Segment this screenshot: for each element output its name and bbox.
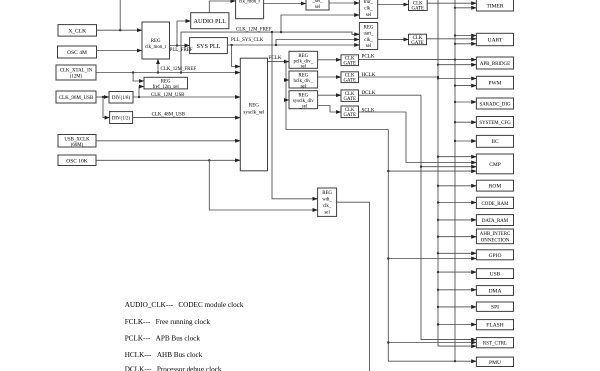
- clock gate DCLK: [341, 90, 359, 102]
- monitor box clk_mon (top, cut off): [236, 0, 264, 19]
- wire PLL_SYS_CLK branch to sysclk_sel input 1: [232, 45, 241, 67]
- peripheral CMP: [476, 154, 513, 174]
- wire CMP input 4 from x=388 bus: [387, 170, 476, 172]
- svg-text:REG: REG: [249, 103, 260, 109]
- register REG clk_mon_r: [142, 22, 170, 59]
- svg-text:clk_mon_r: clk_mon_r: [145, 45, 167, 50]
- wire SARADC_DIG stub: [454, 101, 477, 103]
- svg-text:PCLK: PCLK: [362, 54, 375, 60]
- svg-text:GATE: GATE: [411, 41, 424, 46]
- svg-text:CODE_RAM: CODE_RAM: [482, 202, 510, 207]
- wire clk_mon top box to sel box: [264, 3, 306, 5]
- wire FCLK branch down: [285, 62, 389, 130]
- svg-text:SYSTEM_CFG: SYSTEM_CFG: [479, 121, 511, 126]
- peripheral SARADC_DIG: [476, 98, 513, 109]
- wire wdt_clk_sel out down off bottom: [337, 202, 370, 371]
- svg-text:(12M): (12M): [70, 75, 83, 80]
- clock gate SCLK: [341, 106, 359, 118]
- svg-text:GATE: GATE: [412, 7, 425, 12]
- wire pclk_div_sel to PCLK gate: [318, 59, 341, 61]
- wire TIMER input 2 stub: [454, 7, 477, 9]
- wire DMA stub: [437, 289, 477, 291]
- peripheral APB_BRIDGE: [476, 57, 513, 69]
- wire FCLK to hclk_div_sel: [286, 79, 289, 81]
- peripheral PWM: [476, 76, 513, 89]
- input box OSC 4M: [58, 46, 97, 58]
- svg-text:clk_: clk_: [323, 204, 332, 209]
- register REG hclk_div_sel: [289, 71, 318, 89]
- wire HCLK gate out to HCLK bus: [359, 76, 440, 78]
- wire sysclk_div_sel to DCLK gate: [318, 94, 341, 96]
- peripheral IIC: [476, 135, 513, 147]
- svg-text:AUDIO PLL: AUDIO PLL: [194, 18, 227, 25]
- pll AUDIO PLL: [191, 13, 229, 29]
- divider DIV(1/2): [110, 112, 133, 124]
- register REG wdt_clk_sel: [318, 188, 337, 216]
- wire CMP input 1 stub: [437, 156, 477, 158]
- peripheral RST_CTRL: [476, 338, 513, 348]
- peripheral PMU: [476, 357, 513, 366]
- svg-text:FCLK--- Free running clock: FCLK--- Free running clock: [125, 318, 211, 326]
- svg-text:GATE: GATE: [343, 113, 356, 118]
- svg-text:tmr_: tmr_: [364, 0, 374, 5]
- svg-text:clk_: clk_: [364, 38, 373, 43]
- svg-text:PCLK--- APB Bus clock: PCLK--- APB Bus clock: [125, 335, 201, 343]
- peripheral DATA_RAM: [476, 215, 513, 226]
- svg-text:_sel_: _sel_: [311, 0, 323, 4]
- svg-text:REG: REG: [298, 74, 308, 79]
- wire OSC4M to clk_mon: [96, 50, 142, 52]
- wire OSC 10K branch to wdt_clk_sel input 2: [209, 160, 317, 210]
- svg-text:PWM: PWM: [488, 81, 501, 87]
- register sel box (top, cut off): [306, 0, 329, 10]
- register REG sysclk_sel: [240, 58, 267, 171]
- wire APB_BRIDGE input 2 stub: [437, 63, 477, 65]
- svg-text:PLL_FREF: PLL_FREF: [170, 48, 193, 53]
- svg-text:USB_XCLK: USB_XCLK: [64, 137, 90, 142]
- wire SPI stub: [437, 306, 477, 308]
- wire uart reg to clk gate: [378, 38, 409, 40]
- wire PCLK gate out to APB_BRIDGE: [359, 58, 477, 60]
- bus DCLK vertical x=421 to RST_CTRL input 1: [421, 95, 476, 339]
- clock gate for TIMER: [409, 0, 428, 12]
- clock gate PCLK: [341, 55, 359, 67]
- svg-text:AHB_INTERC: AHB_INTERC: [480, 232, 510, 237]
- clock gate for UART: [409, 34, 427, 46]
- wire uart gate out to UART: [427, 38, 477, 40]
- register REG fref_12m_sel: [144, 77, 188, 90]
- wire FLASH stub: [437, 323, 477, 325]
- wire DCLK gate out to DCLK bus: [359, 94, 422, 96]
- svg-text:REG: REG: [298, 93, 308, 98]
- register REG pclk_div_sel: [289, 51, 318, 69]
- svg-text:ONNECTION: ONNECTION: [481, 238, 510, 243]
- svg-text:DIV(1/8): DIV(1/8): [112, 96, 131, 101]
- svg-text:USB: USB: [490, 272, 501, 278]
- wire CLK_12M_FREF branch down to wdt_clk_sel input 1: [272, 32, 318, 199]
- register REG tmr_clk_sel (top, cut off): [359, 0, 377, 18]
- svg-text:AUDIO_CLK--- CODEC module cl: AUDIO_CLK--- CODEC module clock: [125, 301, 244, 309]
- peripheral FLASH: [476, 320, 513, 330]
- svg-text:PLL_SYS_CLK: PLL_SYS_CLK: [231, 38, 264, 43]
- svg-text:sel: sel: [301, 84, 307, 89]
- svg-text:uart_: uart_: [363, 32, 374, 37]
- wire USB_XCLK to sysclk_sel: [96, 140, 240, 142]
- wire branch down to DIV(1/2): [103, 97, 110, 118]
- svg-text:CMP: CMP: [489, 162, 501, 168]
- svg-text:GATE: GATE: [343, 79, 356, 84]
- wire tmr gate out to TIMER: [427, 2, 476, 4]
- pll SYS PLL: [190, 38, 228, 54]
- wire IIC stub: [454, 140, 477, 142]
- register REG uart_clk_sel: [359, 23, 377, 50]
- svg-text:SPI: SPI: [491, 305, 499, 311]
- peripheral AHB_INTERCONNECTION: [476, 229, 513, 244]
- wire GPIO input 1 stub: [437, 252, 477, 254]
- peripheral TIMER: [476, 0, 513, 11]
- svg-text:OSC 10K: OSC 10K: [66, 158, 88, 164]
- svg-text:SYS PLL: SYS PLL: [197, 43, 221, 50]
- svg-text:clk_mon_r: clk_mon_r: [239, 0, 261, 5]
- svg-text:ROM: ROM: [489, 184, 502, 190]
- wire GPIO input 2 from x=388 bus: [387, 257, 476, 259]
- svg-text:APB_BRIDGE: APB_BRIDGE: [480, 62, 510, 67]
- svg-text:PMU: PMU: [489, 360, 501, 366]
- svg-text:X_CLK: X_CLK: [68, 29, 86, 35]
- wire CLK_12M_FREF riser and top run to uart reg pin1: [181, 31, 359, 73]
- svg-text:CLK_96M_USB: CLK_96M_USB: [59, 95, 94, 101]
- wire CLK_96M_USB to DIV(1/8): [96, 96, 109, 98]
- wire CLK_12M_USB to sysclk_sel: [133, 96, 240, 98]
- wire ROM stub: [437, 185, 477, 187]
- wire USB stub: [437, 271, 477, 273]
- peripheral USB: [476, 269, 513, 279]
- input box CLK_XTAL_IN (12M): [56, 65, 96, 80]
- svg-text:CLK_XTAL_IN: CLK_XTAL_IN: [60, 68, 93, 73]
- wire jog to tmr reg pin2: [281, 15, 359, 32]
- svg-text:UART: UART: [488, 38, 503, 44]
- svg-text:GPIO: GPIO: [489, 253, 502, 259]
- peripheral DMA: [476, 286, 513, 296]
- wire FCLK from sysclk_sel to pclk_div_sel: [268, 60, 290, 62]
- bus FCLK branch vertical x=388 down to PMU: [388, 130, 476, 362]
- svg-text:HCLK--- AHB Bus clock: HCLK--- AHB Bus clock: [125, 351, 203, 359]
- svg-text:clk_: clk_: [364, 7, 373, 12]
- svg-text:sel: sel: [324, 211, 330, 216]
- peripheral SYSTEM_CFG: [476, 117, 513, 128]
- svg-text:SCLK: SCLK: [362, 107, 375, 113]
- wire tmr reg to clk gate: [378, 4, 409, 6]
- svg-text:SARADC_DIG: SARADC_DIG: [480, 102, 511, 107]
- wire branch to fref_12m_sel input 2: [139, 87, 144, 98]
- peripheral UART: [476, 33, 513, 45]
- svg-text:TIMER: TIMER: [486, 4, 503, 10]
- wire jog to uart reg pin2: [276, 40, 359, 46]
- svg-text:OSC 4M: OSC 4M: [67, 50, 87, 56]
- wire X_CLK to clk_mon: [96, 0, 142, 31]
- svg-text:sysclk_sel: sysclk_sel: [243, 110, 265, 116]
- wire hclk_div_sel to HCLK gate: [318, 76, 341, 78]
- input box USB_XCLK (60M): [58, 135, 96, 149]
- svg-text:REG: REG: [322, 191, 332, 196]
- svg-text:DCLK--- Processor debug cloc: DCLK--- Processor debug clock: [125, 365, 222, 371]
- svg-text:RST_CTRL: RST_CTRL: [483, 342, 507, 347]
- svg-text:DATA_RAM: DATA_RAM: [482, 219, 509, 224]
- svg-text:sel: sel: [315, 5, 321, 10]
- bus HCLK vertical x=438 to RST_CTRL input 3: [438, 0, 476, 346]
- svg-text:REG: REG: [298, 54, 308, 59]
- svg-text:DCLK: DCLK: [362, 90, 376, 96]
- wire PLL_FREF branch to AUDIO PLL: [177, 21, 191, 46]
- svg-text:_sel: _sel: [298, 104, 308, 109]
- svg-text:HCLK: HCLK: [362, 72, 376, 78]
- svg-text:sysclk_div: sysclk_div: [293, 99, 314, 104]
- svg-text:REG: REG: [161, 79, 171, 84]
- svg-text:sel: sel: [301, 65, 307, 70]
- svg-text:sel: sel: [366, 13, 372, 18]
- wire PWM input 1 stub: [437, 77, 477, 79]
- wire clk_mon out PLL_FREF to SYS PLL: [170, 44, 190, 46]
- wire PWM input 2 stub: [454, 84, 477, 86]
- wire UART input 3 stub: [454, 43, 477, 45]
- svg-text:GATE: GATE: [343, 97, 356, 102]
- peripheral GPIO: [476, 250, 513, 260]
- svg-text:FLASH: FLASH: [486, 323, 503, 329]
- svg-text:IIC: IIC: [491, 139, 499, 145]
- svg-text:REG: REG: [364, 26, 374, 31]
- wire AHB_INTERCONNECTION stub: [437, 236, 477, 238]
- wire CLK_XTAL_IN to sysclk_sel: [96, 71, 240, 73]
- svg-text:FCLK: FCLK: [269, 55, 282, 61]
- input box OSC 10K: [58, 155, 96, 166]
- svg-text:REG: REG: [151, 39, 161, 44]
- svg-text:DMA: DMA: [489, 289, 502, 295]
- svg-text:CLK_48M_USB: CLK_48M_USB: [152, 112, 186, 117]
- wire OSC 10K to sysclk_sel: [96, 159, 240, 161]
- peripheral SPI: [476, 302, 513, 311]
- wire DATA_RAM stub: [437, 219, 477, 221]
- svg-text:CLK_12M_FREF: CLK_12M_FREF: [236, 28, 272, 33]
- wire AUDIO PLL out to clk_mon top box: [209, 1, 235, 13]
- bus PCLK vertical x=455: [454, 0, 456, 362]
- svg-text:GATE: GATE: [343, 62, 356, 67]
- wire UART input 1 stub: [454, 34, 477, 36]
- peripheral CODE_RAM: [476, 197, 513, 208]
- wire RST_CTRL input 2 from x=388 bus: [387, 341, 476, 343]
- register REG sysclk_div_sel: [289, 91, 318, 110]
- svg-text:sel: sel: [366, 44, 372, 49]
- wire SYS PLL out PLL_SYS_CLK to uart reg pin3: [227, 44, 359, 46]
- wire SCLK gate out to CMP input 2: [359, 112, 477, 163]
- svg-text:fref_12m_sel: fref_12m_sel: [153, 85, 180, 90]
- wire CODE_RAM stub: [437, 201, 477, 203]
- wire branch to fref_12m_sel input 1: [133, 73, 144, 82]
- clock gate HCLK: [341, 72, 359, 84]
- peripheral ROM: [476, 180, 513, 191]
- wire branch up into clk_mon bottom: [157, 59, 159, 73]
- input box CLK_96M_USB: [56, 91, 96, 103]
- svg-text:CLK_12M_USB: CLK_12M_USB: [151, 93, 185, 98]
- wire sysclk_div_sel to SCLK gate: [318, 106, 341, 113]
- svg-text:(60M): (60M): [71, 143, 84, 148]
- wire CLK_48M_USB to sysclk_sel: [133, 117, 241, 119]
- divider DIV(1/8): [109, 92, 133, 104]
- svg-text:DIV(1/2): DIV(1/2): [112, 116, 131, 121]
- wire sel box out to tmr reg pin1: [329, 2, 359, 4]
- input box X_CLK: [58, 25, 97, 36]
- wire CMP input 3 stub from DCLK bus: [420, 166, 477, 168]
- wire FCLK to sysclk_div_sel: [286, 99, 289, 101]
- wire SYSTEM_CFG stub: [454, 121, 477, 123]
- svg-text:CLK_12M_FREF: CLK_12M_FREF: [161, 67, 197, 72]
- svg-text:wdt_: wdt_: [322, 198, 332, 203]
